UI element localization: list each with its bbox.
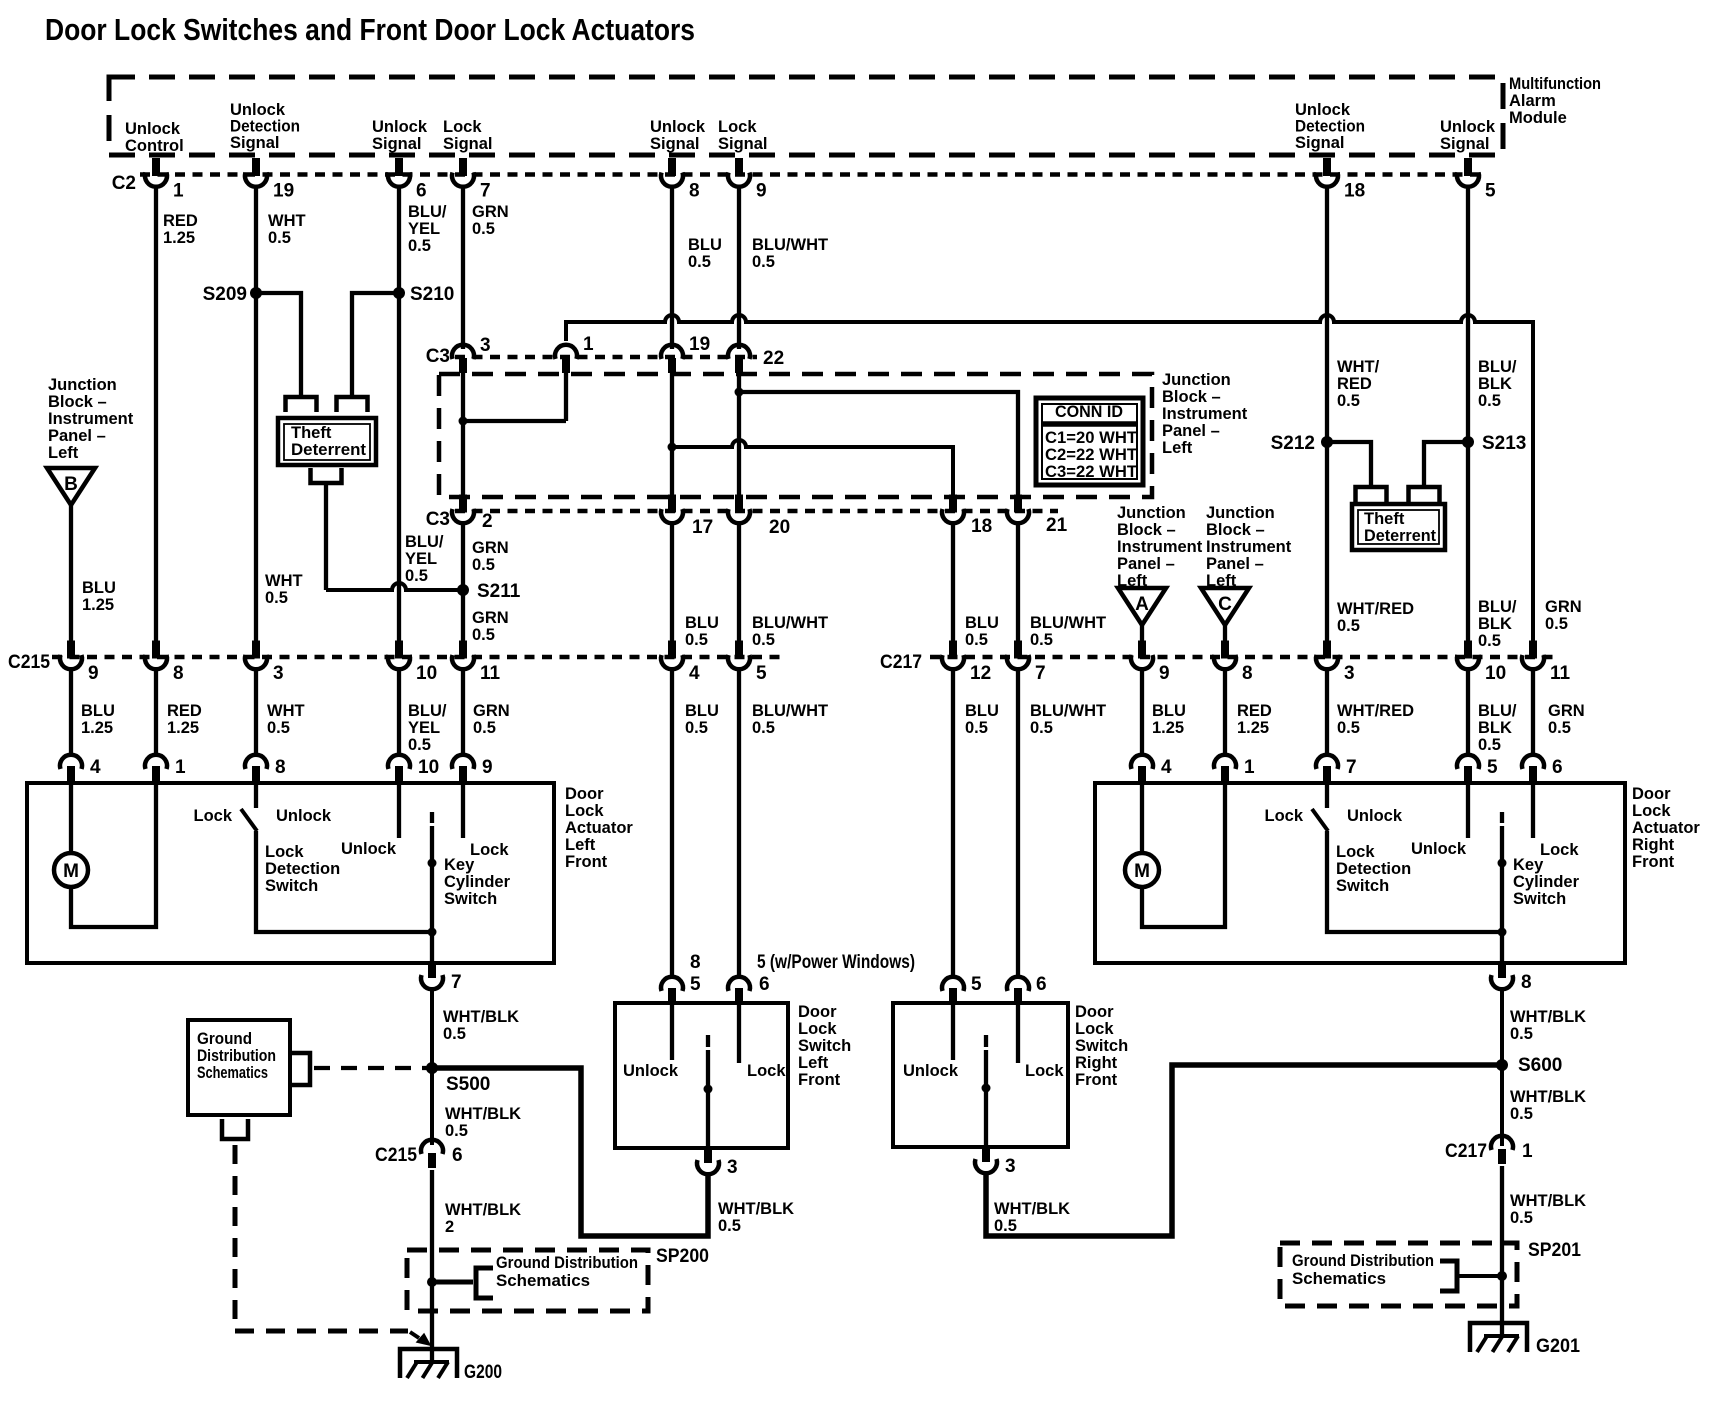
svg-text:0.5: 0.5 xyxy=(1510,1025,1533,1043)
connector pin C3-17 xyxy=(661,495,713,539)
svg-text:BLU/WHT: BLU/WHT xyxy=(752,702,828,720)
switch left pin 5 (alt 8) xyxy=(661,977,683,1005)
svg-text:Module: Module xyxy=(1509,109,1567,127)
svg-text:BLU/WHT: BLU/WHT xyxy=(1030,702,1106,720)
svg-text:7: 7 xyxy=(1346,757,1357,778)
connector pin C217-10 xyxy=(1457,641,1506,685)
svg-text:Switch: Switch xyxy=(1336,877,1389,895)
svg-text:Cylinder: Cylinder xyxy=(1513,873,1580,891)
svg-text:Switch: Switch xyxy=(1075,1037,1128,1055)
svg-text:Signal: Signal xyxy=(443,135,493,153)
svg-text:2: 2 xyxy=(445,1218,454,1236)
svg-text:1.25: 1.25 xyxy=(1237,719,1269,737)
connector pin C3-1 xyxy=(555,334,594,373)
svg-text:Deterrent: Deterrent xyxy=(291,441,367,459)
key cylinder switch (left): blade xyxy=(430,826,434,932)
component: Door Lock Switch Right Front (box) xyxy=(893,1003,1068,1147)
actuator left pin 10 xyxy=(388,755,439,783)
svg-text:BLU: BLU xyxy=(685,702,719,720)
svg-text:0.5: 0.5 xyxy=(267,719,290,737)
component: Theft Deterrent (right) xyxy=(1352,504,1445,550)
wire GRN 0.5: C3-1 up and across to C217-11 (hops over four wires) xyxy=(566,315,1533,641)
wire BLU/WHT 0.5: C2-9 to C3-22 xyxy=(737,186,741,349)
svg-text:Front: Front xyxy=(565,853,608,871)
svg-text:Cylinder: Cylinder xyxy=(444,873,511,891)
svg-text:0.5: 0.5 xyxy=(265,589,288,607)
svg-text:Lock: Lock xyxy=(1075,1020,1114,1038)
svg-text:18: 18 xyxy=(1344,181,1365,202)
key cylinder switch (right): unlock contact from pin 5 xyxy=(1466,783,1470,838)
svg-text:Lock: Lock xyxy=(193,807,232,825)
svg-text:1: 1 xyxy=(1244,757,1255,778)
svg-text:BLK: BLK xyxy=(1478,719,1512,737)
switch right pivot node xyxy=(982,1084,991,1093)
svg-text:Panel –: Panel – xyxy=(48,427,106,445)
svg-text:Schematics: Schematics xyxy=(197,1064,268,1082)
svg-text:BLU/: BLU/ xyxy=(1478,702,1517,720)
svg-text:5: 5 xyxy=(971,974,982,995)
svg-text:6: 6 xyxy=(452,1145,463,1166)
svg-text:Unlock: Unlock xyxy=(125,120,181,138)
connector pin C215-11 xyxy=(452,641,501,685)
junction block: Instrument Panel Left (dashed outline) xyxy=(439,374,1152,497)
svg-text:Left: Left xyxy=(48,444,79,462)
svg-text:22: 22 xyxy=(763,348,784,369)
wire BLU/BLK 0.5: C2-5 to C217-10 (through S213) xyxy=(1466,186,1470,641)
component: Ground Distribution Schematics (left box) xyxy=(188,1020,290,1115)
connector C215 harness line (dashed) xyxy=(52,655,780,660)
svg-text:9: 9 xyxy=(1159,663,1170,684)
inline connector C217 pin 1 xyxy=(1491,1136,1513,1164)
switch left pin 3 (below box) xyxy=(697,1147,738,1178)
junction: switch commons to pin 7 (left) xyxy=(428,928,437,937)
svg-text:BLU/: BLU/ xyxy=(405,533,444,551)
switch right: unlock contact xyxy=(951,1004,955,1060)
motor M (left actuator) xyxy=(69,783,73,853)
wire: SP200 junction xyxy=(432,1280,473,1285)
wire BLU 0.5: C3-17 to C215-4 xyxy=(670,524,674,641)
switch left: unlock contact xyxy=(670,1004,674,1060)
wire WHT/RED 0.5: C2-18 to C217-3 (through S212) xyxy=(1325,186,1329,641)
svg-text:Unlock: Unlock xyxy=(1347,807,1403,825)
svg-text:Key: Key xyxy=(1513,856,1544,874)
svg-text:Front: Front xyxy=(1075,1071,1118,1089)
junction block terminal A (triangle) xyxy=(1118,588,1166,625)
actuator left pin 4 xyxy=(60,755,101,783)
dashed reference wire: box to G200 (with arrow) xyxy=(235,1145,408,1331)
svg-text:Front: Front xyxy=(1632,853,1675,871)
svg-text:Block –: Block – xyxy=(1162,388,1221,406)
wire: lock detection switch common (right) xyxy=(1327,831,1502,932)
motor M (right actuator) xyxy=(1140,783,1144,853)
svg-text:Actuator: Actuator xyxy=(565,819,633,837)
svg-text:8: 8 xyxy=(275,757,286,778)
svg-text:Instrument: Instrument xyxy=(48,410,134,428)
svg-text:8: 8 xyxy=(173,663,184,684)
svg-text:GRN: GRN xyxy=(1545,598,1582,616)
svg-text:Lock: Lock xyxy=(565,802,604,820)
svg-text:Lock: Lock xyxy=(1264,807,1303,825)
svg-text:WHT/BLK: WHT/BLK xyxy=(445,1201,521,1219)
svg-text:BLK: BLK xyxy=(1478,375,1512,393)
svg-text:Switch: Switch xyxy=(444,890,497,908)
svg-text:WHT/RED: WHT/RED xyxy=(1337,600,1414,618)
splice SP200 (dashed box) xyxy=(407,1250,648,1311)
svg-text:7: 7 xyxy=(451,972,462,993)
svg-text:Ground Distribution: Ground Distribution xyxy=(1292,1252,1434,1270)
wire BLU/WHT 0.5: C217-7 to door lock switch right pin 6 xyxy=(1016,670,1020,977)
svg-text:RED: RED xyxy=(167,702,202,720)
svg-text:Unlock: Unlock xyxy=(1440,118,1496,136)
svg-text:Deterrent: Deterrent xyxy=(1364,527,1436,545)
wire RED 1.25: C215-8 to actuator left pin 1 xyxy=(154,670,158,757)
svg-text:Schematics: Schematics xyxy=(1292,1270,1386,1288)
svg-text:C2=22 WHT: C2=22 WHT xyxy=(1045,446,1137,464)
wire: SP201 junction xyxy=(1459,1274,1502,1278)
lock detection switch (left): blade xyxy=(241,809,257,831)
svg-text:BLU/WHT: BLU/WHT xyxy=(752,614,828,632)
terminal: theft deterrent left input 1 xyxy=(286,397,317,412)
wire BLU 0.5: C215-4 to door lock switch left pin 5 xyxy=(670,670,674,977)
splice S210 xyxy=(393,287,405,299)
svg-text:9: 9 xyxy=(756,181,767,202)
svg-text:BLU/WHT: BLU/WHT xyxy=(1030,614,1106,632)
svg-text:YEL: YEL xyxy=(405,550,437,568)
svg-text:1: 1 xyxy=(1522,1141,1533,1162)
svg-text:Panel –: Panel – xyxy=(1162,422,1220,440)
terminal bracket (SP201) xyxy=(1440,1261,1457,1291)
svg-text:3: 3 xyxy=(480,335,491,356)
connector pin C3-2 xyxy=(452,495,493,533)
wire WHT 0.5: C215-3 to actuator left pin 8 xyxy=(254,670,258,757)
svg-text:0.5: 0.5 xyxy=(752,253,775,271)
svg-text:8: 8 xyxy=(689,181,700,202)
svg-text:M: M xyxy=(1134,861,1150,882)
svg-text:0.5: 0.5 xyxy=(994,1217,1017,1235)
key cylinder switch (left): unlock contact from pin 10 xyxy=(397,783,401,838)
svg-text:Instrument: Instrument xyxy=(1117,538,1203,556)
connector pin C2-5 xyxy=(1457,158,1496,202)
svg-text:Detection: Detection xyxy=(230,118,300,136)
svg-text:C3=22 WHT: C3=22 WHT xyxy=(1045,463,1137,481)
svg-text:WHT/BLK: WHT/BLK xyxy=(445,1105,521,1123)
svg-text:Signal: Signal xyxy=(1440,135,1490,153)
terminal: theft deterrent left output xyxy=(311,468,342,483)
terminal: theft deterrent right input 1 xyxy=(1356,487,1387,502)
junction: C3-3/C3-1/C3-2 node xyxy=(459,417,468,426)
svg-text:Lock: Lock xyxy=(798,1020,837,1038)
svg-text:G201: G201 xyxy=(1536,1336,1580,1357)
svg-text:Panel –: Panel – xyxy=(1117,555,1175,573)
svg-text:Switch: Switch xyxy=(265,877,318,895)
wire BLU 1.25: C215-9 to actuator left pin 4 xyxy=(69,670,73,757)
connector pin C3-18 xyxy=(942,495,992,538)
svg-text:3: 3 xyxy=(273,663,284,684)
svg-text:21: 21 xyxy=(1046,515,1068,536)
svg-text:0.5: 0.5 xyxy=(1337,719,1360,737)
svg-text:Control: Control xyxy=(125,137,184,155)
svg-text:S211: S211 xyxy=(477,581,521,602)
wire GRN 0.5: C217-11 to actuator right pin 6 xyxy=(1531,670,1535,757)
svg-text:0.5: 0.5 xyxy=(965,631,988,649)
svg-text:Unlock: Unlock xyxy=(341,840,397,858)
actuator right pin 7 xyxy=(1316,755,1357,783)
actuator right pin 4 xyxy=(1131,755,1172,783)
actuator right pin 8 (below box) xyxy=(1491,962,1532,993)
svg-text:Unlock: Unlock xyxy=(230,101,286,119)
component: Door Lock Switch Left Front (box) xyxy=(615,1003,788,1148)
svg-text:3: 3 xyxy=(1344,663,1355,684)
svg-text:Junction: Junction xyxy=(48,376,117,394)
svg-text:0.5: 0.5 xyxy=(685,719,708,737)
connector pin C3-22 xyxy=(728,345,784,373)
wire: motor M return to pin 1 (left) xyxy=(71,783,156,927)
svg-text:S600: S600 xyxy=(1518,1055,1562,1076)
switch left: lock contact xyxy=(737,1004,741,1063)
wire BLU 1.25: C217-9 to actuator right pin 4 xyxy=(1140,670,1144,757)
svg-text:1: 1 xyxy=(173,181,184,202)
connector pin C2-9 xyxy=(728,158,767,202)
connector C217 harness line (dashed) xyxy=(930,655,1560,660)
svg-text:S209: S209 xyxy=(203,284,247,305)
svg-text:Left: Left xyxy=(798,1054,829,1072)
connector pin C2-8 xyxy=(661,158,700,202)
svg-text:0.5: 0.5 xyxy=(1510,1209,1533,1227)
svg-text:BLU: BLU xyxy=(965,702,999,720)
key cylinder pivot node (left) xyxy=(428,859,437,868)
svg-text:WHT: WHT xyxy=(268,212,306,230)
key cylinder switch (left): lock contact from pin 9 xyxy=(461,783,465,838)
svg-text:Junction: Junction xyxy=(1162,371,1231,389)
svg-text:Door: Door xyxy=(798,1003,837,1021)
svg-text:BLU/: BLU/ xyxy=(1478,598,1517,616)
svg-text:BLU/WHT: BLU/WHT xyxy=(752,236,828,254)
key cylinder pivot node (right) xyxy=(1498,859,1507,868)
svg-text:GRN: GRN xyxy=(473,702,510,720)
svg-text:S210: S210 xyxy=(410,284,454,305)
svg-text:0.5: 0.5 xyxy=(268,229,291,247)
svg-text:C2: C2 xyxy=(112,173,136,194)
wire WHT/BLK 0.5: door lock switch right pin 3 to S600 (heavy) xyxy=(986,1065,1502,1236)
splice SP201 (dashed box) xyxy=(1280,1243,1517,1306)
wire WHT/BLK 0.5: actuator left pin 7 to S500 xyxy=(430,988,434,1145)
svg-text:Detection: Detection xyxy=(265,860,340,878)
svg-text:4: 4 xyxy=(1161,757,1172,778)
svg-text:BLK: BLK xyxy=(1478,615,1512,633)
svg-text:BLU: BLU xyxy=(965,614,999,632)
svg-text:Ground Distribution: Ground Distribution xyxy=(496,1254,638,1272)
svg-text:Left: Left xyxy=(1162,439,1193,457)
wire WHT/RED 0.5: C217-3 to actuator right pin 7 xyxy=(1325,670,1329,757)
svg-text:Left: Left xyxy=(565,836,596,854)
wire: theft deterrent output to S211 (hop over BLU/YEL wire) xyxy=(324,483,328,590)
svg-text:4: 4 xyxy=(90,757,101,778)
svg-text:0.5: 0.5 xyxy=(1545,615,1568,633)
wire: S213 branch to theft deterrent terminal xyxy=(1424,442,1468,487)
module: Multifunction Alarm Module (dashed outline) xyxy=(109,77,1503,155)
svg-text:0.5: 0.5 xyxy=(443,1025,466,1043)
wire WHT/BLK 0.5: C217-1 to ground G201 xyxy=(1500,1166,1504,1336)
svg-text:M: M xyxy=(63,861,79,882)
wire: common to pin 7 (left) xyxy=(430,932,434,963)
svg-text:Lock: Lock xyxy=(1632,802,1671,820)
wire BLU/BLK 0.5: C217-10 to actuator right pin 5 xyxy=(1466,670,1470,757)
svg-text:2: 2 xyxy=(482,511,493,532)
wire: motor M return to pin 1 (right) xyxy=(1142,783,1225,927)
wire: common to pin 8 (right) xyxy=(1500,932,1504,963)
connector pin C215-10 xyxy=(388,641,437,685)
svg-text:Door Lock Switches and Front D: Door Lock Switches and Front Door Lock A… xyxy=(45,12,695,47)
svg-text:Unlock: Unlock xyxy=(903,1062,959,1080)
ground G201 xyxy=(1470,1323,1527,1352)
wire BLU 0.5: C217-12 to door lock switch right pin 5 xyxy=(951,670,955,977)
junction: C3-19/C3-17/C3-18 node xyxy=(668,443,677,452)
svg-text:0.5: 0.5 xyxy=(473,719,496,737)
svg-text:10: 10 xyxy=(1485,663,1506,684)
component: Theft Deterrent (left) xyxy=(278,418,376,465)
svg-text:6: 6 xyxy=(1036,974,1047,995)
svg-text:Door: Door xyxy=(1075,1003,1114,1021)
svg-text:7: 7 xyxy=(1035,663,1046,684)
splice S213 xyxy=(1462,436,1474,448)
svg-text:6: 6 xyxy=(416,181,427,202)
svg-text:Detection: Detection xyxy=(1295,118,1365,136)
svg-text:BLU: BLU xyxy=(82,579,116,597)
svg-text:Signal: Signal xyxy=(372,135,422,153)
wire: S212 branch to theft deterrent terminal xyxy=(1327,442,1371,487)
svg-text:5: 5 xyxy=(690,974,701,995)
wire RED 1.25: triangle C to C217-8 xyxy=(1223,625,1227,641)
svg-text:GRN: GRN xyxy=(1548,702,1585,720)
connector C2 harness line (dashed) xyxy=(140,172,1482,177)
svg-text:0.5: 0.5 xyxy=(1510,1105,1533,1123)
svg-text:Instrument: Instrument xyxy=(1206,538,1292,556)
switch right: lock contact xyxy=(1016,1004,1020,1063)
wire RED 1.25: C217-8 to actuator right pin 1 xyxy=(1223,670,1227,757)
svg-text:Unlock: Unlock xyxy=(623,1062,679,1080)
svg-text:0.5: 0.5 xyxy=(472,220,495,238)
svg-text:10: 10 xyxy=(418,757,439,778)
svg-text:Multifunction: Multifunction xyxy=(1509,75,1601,93)
svg-text:1.25: 1.25 xyxy=(82,596,114,614)
svg-text:0.5: 0.5 xyxy=(1478,632,1501,650)
svg-text:0.5: 0.5 xyxy=(718,1217,741,1235)
switch right: blade common xyxy=(984,1050,988,1147)
svg-text:10: 10 xyxy=(416,663,437,684)
connector pin C3-21 xyxy=(1007,495,1068,537)
svg-text:6: 6 xyxy=(759,974,770,995)
actuator right pin 5 xyxy=(1457,755,1498,783)
splice S500 xyxy=(426,1062,438,1074)
svg-text:RED: RED xyxy=(163,212,198,230)
svg-text:YEL: YEL xyxy=(408,719,440,737)
svg-text:Right: Right xyxy=(1632,836,1675,854)
connector pin C215-4 xyxy=(661,641,700,685)
terminal: theft deterrent left input 2 xyxy=(337,397,368,412)
svg-text:Unlock: Unlock xyxy=(1411,840,1467,858)
junction block internal wire: C3-19 to C3-17 with branch to C3-18 (hop over C3-22 wire) xyxy=(670,369,674,497)
connector pin C3-3 xyxy=(452,335,491,373)
key cylinder switch (left): blade neutral (dashed) xyxy=(430,812,434,823)
svg-text:C3: C3 xyxy=(426,346,450,367)
wire WHT/BLK 0.5: S500 to door lock switch left pin 3 (heavy) xyxy=(432,1068,708,1236)
svg-text:19: 19 xyxy=(689,334,710,355)
svg-text:Door: Door xyxy=(1632,785,1671,803)
svg-text:C217: C217 xyxy=(880,652,922,673)
svg-text:Lock: Lock xyxy=(1025,1062,1064,1080)
svg-text:0.5: 0.5 xyxy=(1337,392,1360,410)
svg-text:Signal: Signal xyxy=(718,135,768,153)
component: Door Lock Actuator Right Front (box) xyxy=(1095,783,1625,963)
svg-text:RED: RED xyxy=(1237,702,1272,720)
svg-text:WHT/: WHT/ xyxy=(1337,358,1380,376)
svg-text:0.5: 0.5 xyxy=(405,567,428,585)
svg-text:Unlock: Unlock xyxy=(650,118,706,136)
svg-text:Lock: Lock xyxy=(265,843,304,861)
svg-text:Unlock: Unlock xyxy=(372,118,428,136)
terminal bracket below Ground Distribution Schematics box xyxy=(222,1119,248,1139)
wire GRN 0.5: C3-2 to C215-11 (through S211) xyxy=(461,524,465,641)
svg-text:5: 5 xyxy=(756,663,767,684)
svg-text:Lock: Lock xyxy=(470,841,509,859)
svg-text:6: 6 xyxy=(1552,757,1563,778)
wire BLU/WHT 0.5: C3-20 to C215-5 xyxy=(737,524,741,641)
svg-text:8: 8 xyxy=(690,952,701,973)
splice S209 xyxy=(250,287,262,299)
lock detection switch (right): blade xyxy=(1312,809,1328,831)
connector pin C2-1 xyxy=(145,158,184,202)
connector pin C2-6 xyxy=(388,158,427,202)
svg-text:Theft: Theft xyxy=(291,424,332,442)
svg-text:C217: C217 xyxy=(1445,1141,1487,1162)
actuator right pin 6 xyxy=(1522,755,1563,783)
svg-text:8: 8 xyxy=(1242,663,1253,684)
junction: C3-22/C3-20/C3-21 node xyxy=(735,388,744,397)
connector pin C217-9 xyxy=(1131,641,1170,685)
svg-text:Instrument: Instrument xyxy=(1162,405,1248,423)
switch left pin 6 (alt 5 w/Power Windows) xyxy=(728,977,750,1005)
svg-text:Ground: Ground xyxy=(197,1030,252,1048)
svg-text:Unlock: Unlock xyxy=(276,807,332,825)
wire BLU 1.25: triangle A to C217-9 xyxy=(1140,625,1144,641)
svg-text:Unlock: Unlock xyxy=(1295,101,1351,119)
svg-text:17: 17 xyxy=(692,517,713,538)
svg-text:Panel –: Panel – xyxy=(1206,555,1264,573)
svg-text:WHT: WHT xyxy=(265,572,303,590)
connector pin C215-9 xyxy=(60,641,99,685)
svg-text:RED: RED xyxy=(1337,375,1372,393)
wire: S210 branch to theft deterrent terminal xyxy=(352,293,399,397)
svg-text:18: 18 xyxy=(971,516,992,537)
svg-text:Block –: Block – xyxy=(1206,521,1265,539)
svg-text:5: 5 xyxy=(1487,757,1498,778)
svg-text:4: 4 xyxy=(689,663,700,684)
wire BLU 0.5: C2-8 to C3-19 xyxy=(670,186,674,349)
svg-text:WHT/BLK: WHT/BLK xyxy=(443,1008,519,1026)
connector pin C217-7 xyxy=(1007,641,1046,685)
svg-text:BLU/: BLU/ xyxy=(1478,358,1517,376)
svg-text:0.5: 0.5 xyxy=(1030,631,1053,649)
svg-text:C215: C215 xyxy=(8,652,50,673)
wire BLU 0.5: C3-18 to C217-12 xyxy=(951,524,955,641)
svg-text:1.25: 1.25 xyxy=(167,719,199,737)
svg-text:1: 1 xyxy=(583,334,594,355)
svg-text:11: 11 xyxy=(480,663,501,684)
switch right pin 3 (below box) xyxy=(975,1146,1016,1177)
svg-text:S500: S500 xyxy=(446,1074,490,1095)
svg-text:GRN: GRN xyxy=(472,609,509,627)
table: CONN ID xyxy=(1036,398,1143,485)
